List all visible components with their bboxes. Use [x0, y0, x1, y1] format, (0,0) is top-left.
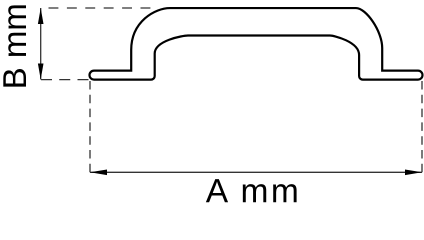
- arrow A left: [90, 170, 107, 176]
- handle outline: [90, 8, 423, 80]
- extension line A-left (dashed vertical): [89, 81, 91, 172]
- dimension line A (horizontal): [90, 171, 422, 173]
- extension line A-right (dashed vertical): [421, 81, 423, 172]
- extension line bottom-left (dashed): [41, 79, 89, 81]
- label A mm: [206, 179, 297, 202]
- extension line top (dashed): [49, 7, 153, 9]
- arrow B bottom: [38, 64, 44, 80]
- dimension line B (vertical): [40, 8, 42, 80]
- arrow B top: [38, 8, 44, 24]
- arrow A right: [405, 170, 422, 176]
- label B mm (rotated): [3, 5, 26, 86]
